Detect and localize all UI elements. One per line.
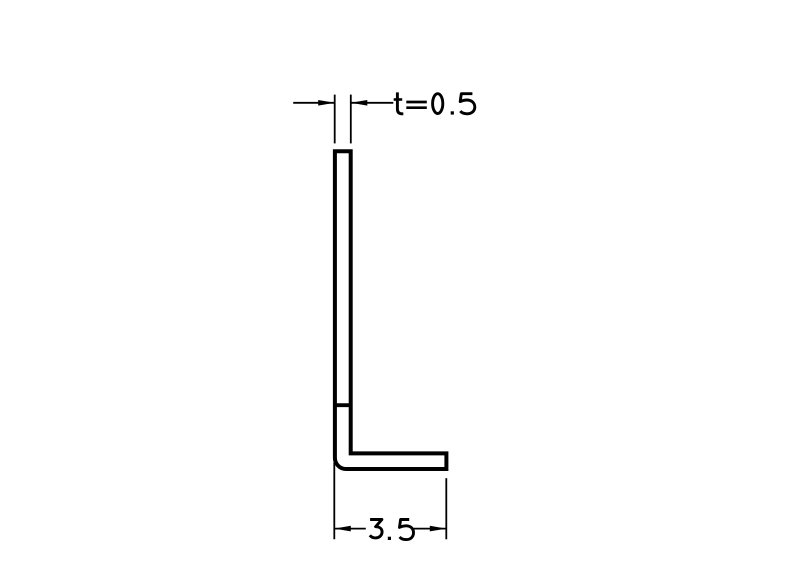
dimension line right tail (top) [351,102,393,104]
dimension line left segment (bottom) [334,528,366,530]
text 3.5 : glyph 3 [370,520,382,538]
text t=0.5 : glyph 5 [460,94,475,114]
extension line right (bottom dimension) [445,478,447,539]
text t=0.5 : glyph . [451,111,454,114]
extension line left (bottom dimension) [333,462,335,539]
dimension line left tail (top) [293,102,334,104]
dimension line right segment (bottom) [414,528,447,530]
seam line on vertical leg [335,403,351,407]
arrowhead right (top, pointing left) [351,100,368,106]
L-profile outline [335,151,447,469]
text t=0.5 : glyph t [397,92,403,113]
arrowhead right (bottom, pointing right) [430,526,447,532]
arrowhead left (bottom, pointing left) [334,526,351,532]
text t=0.5 : glyph = [406,102,427,108]
text t=0.5 : glyph 0 [433,94,443,114]
text 3.5 : glyph 5 [400,520,414,540]
extension line right (top dimension) [350,95,352,144]
arrowhead left (top, pointing right) [318,100,335,106]
text 3.5 : glyph . [388,537,391,540]
extension line left (top dimension) [334,95,336,144]
